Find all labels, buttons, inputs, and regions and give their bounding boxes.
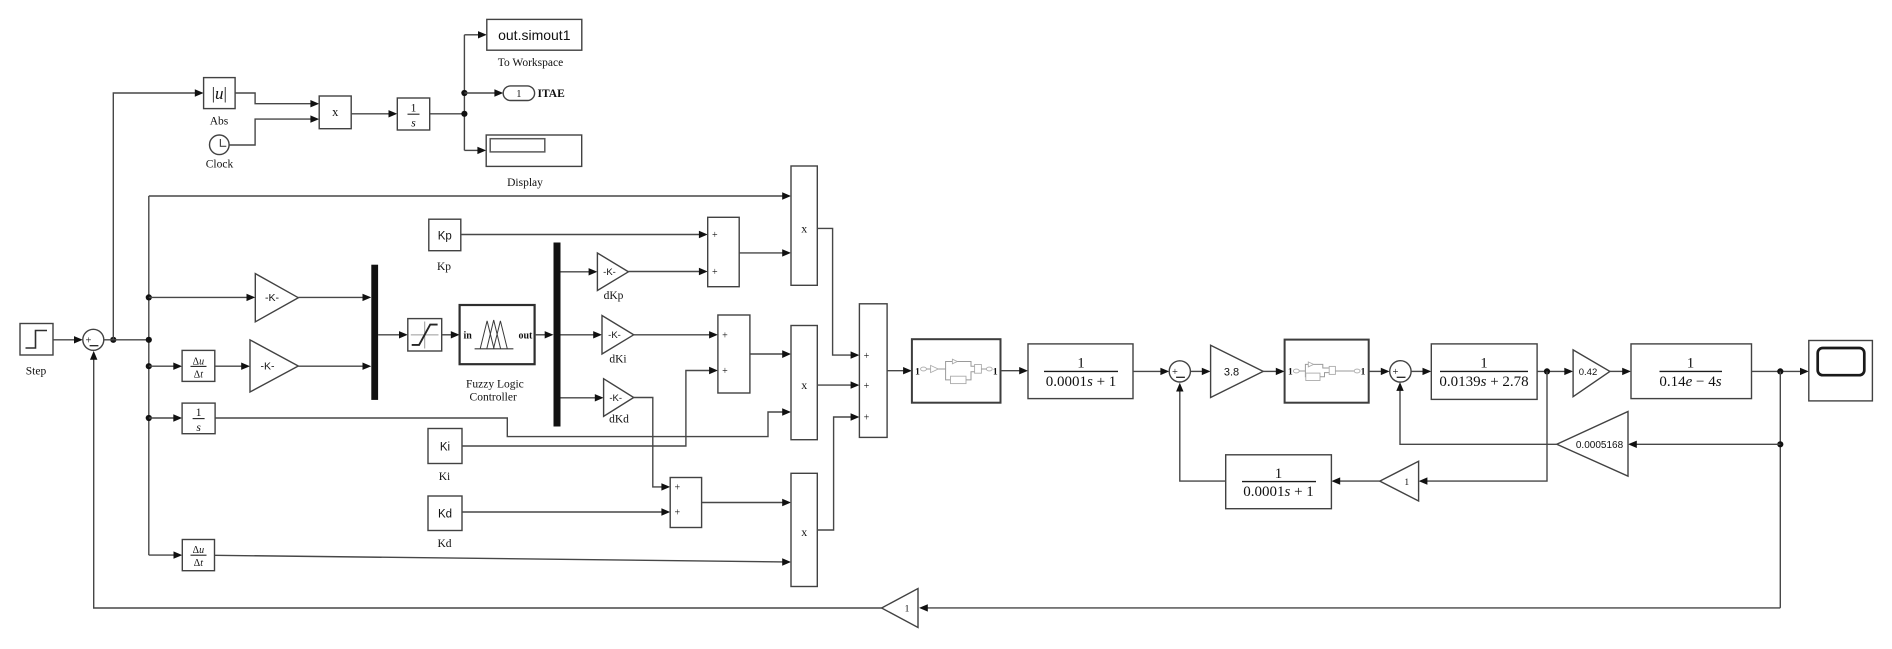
svg-text:0.0139s + 2.78: 0.0139s + 2.78: [1439, 374, 1528, 390]
block Saturation: [408, 319, 442, 351]
wire Sum5 to Gain3.8: [1190, 368, 1210, 375]
wire Kde to Mux: [298, 363, 371, 370]
block constant Kd: [428, 496, 462, 531]
wire Product to Integrator: [351, 110, 397, 117]
svg-text:Ki: Ki: [439, 471, 451, 483]
block Product x: [319, 96, 351, 129]
gain 0.42 triangle: [1573, 350, 1610, 397]
block derivative du/dt 2: [182, 540, 214, 571]
node e-bus integ tap: [146, 415, 152, 421]
svg-text:+: +: [1172, 367, 1178, 378]
svg-text:Kd: Kd: [437, 538, 451, 550]
svg-text:+: +: [1393, 367, 1399, 378]
wire e-bus vertical: [148, 196, 150, 555]
wire du/dt2 to Product3: [215, 555, 792, 565]
wire TF4 to Sum5: [1176, 383, 1226, 481]
wire Subsystem1 to TF1: [1001, 367, 1029, 374]
svg-text:-K-: -K-: [608, 330, 621, 341]
svg-text:Fuzzy Logic: Fuzzy Logic: [466, 378, 524, 390]
wire Ke to Mux: [298, 294, 371, 301]
node plant output junction: [1777, 368, 1783, 374]
product Product3: [791, 473, 817, 586]
svg-text:To Workspace: To Workspace: [498, 57, 563, 69]
wire dKd to SumD: [634, 398, 671, 491]
wire Kd to SumD: [462, 508, 670, 515]
wire Kp to SumP: [461, 231, 708, 238]
wire Demux to dKi: [561, 331, 603, 338]
wire Gain0.0005168 to Sum6: [1396, 382, 1557, 444]
block TransferFcn3 1/(0.14e-4s): [1631, 344, 1752, 399]
node ITAE tap: [461, 90, 467, 96]
wire e to du/dt2: [149, 551, 183, 558]
svg-text:1: 1: [516, 89, 521, 100]
block Scope: [1809, 341, 1873, 401]
wire Saturation to FLC: [442, 331, 460, 338]
svg-text:out.simout1: out.simout1: [498, 27, 571, 43]
svg-text:+: +: [864, 381, 870, 392]
sum SumOut: [859, 304, 887, 438]
gain Ke -K- triangle: [255, 274, 298, 322]
svg-text:Abs: Abs: [210, 115, 229, 127]
svg-text:dKi: dKi: [609, 353, 626, 365]
svg-text:Δu: Δu: [193, 356, 204, 367]
wire dKi to SumI: [634, 331, 718, 338]
wire e to gain Ke: [149, 294, 256, 301]
block derivative du/dt 1: [182, 350, 215, 381]
block To Workspace out.simout1: [487, 19, 582, 50]
svg-text:Display: Display: [507, 177, 543, 189]
wire TF2 junction down to Gain1a: [1419, 371, 1547, 484]
wire Clock to Product: [229, 115, 319, 145]
wire Ki to SumI: [462, 367, 718, 446]
svg-text:0.0001s + 1: 0.0001s + 1: [1046, 374, 1117, 390]
block Fuzzy Logic Controller: [460, 305, 535, 364]
block TransferFcn2 1/(0.0139s+2.78): [1431, 344, 1537, 400]
sum Sum5 circle: [1169, 361, 1190, 382]
svg-text:-K-: -K-: [609, 393, 622, 404]
wire to ToWorkspace: [464, 31, 486, 38]
svg-text:Controller: Controller: [470, 392, 517, 404]
wire Gain1a to TF4: [1331, 477, 1379, 484]
wire to ITAE port: [464, 89, 503, 96]
wire plant output down: [1779, 371, 1781, 608]
wire Product3 to SumOut: [817, 413, 859, 530]
wire integrator2 to Product2: [215, 408, 791, 436]
svg-text:in: in: [464, 331, 473, 342]
svg-text:x: x: [801, 378, 807, 392]
mux Mux1: [371, 265, 378, 400]
sum SumI: [718, 315, 750, 393]
sum junction Sum1: [83, 329, 104, 350]
svg-text:+: +: [722, 366, 728, 377]
svg-text:1: 1: [196, 407, 202, 419]
block constant Kp: [429, 219, 461, 251]
gain Kde -K- triangle: [250, 340, 298, 392]
product Product1: [791, 166, 817, 285]
svg-text:+: +: [85, 336, 91, 347]
sum SumD: [670, 478, 701, 528]
wire Sum6 to TF2: [1411, 368, 1431, 375]
svg-text:+: +: [712, 230, 718, 241]
wire Sum1 out to e-bus: [104, 339, 149, 341]
wire Step to Sum1: [53, 336, 83, 343]
subsystem Subsystem1: [912, 339, 1001, 403]
svg-text:x: x: [801, 525, 807, 539]
sum Sum6 circle: [1390, 361, 1411, 382]
svg-text:Step: Step: [26, 366, 47, 378]
wire tap vertical: [463, 35, 465, 151]
wire Gain3.8 to Subsystem2: [1263, 368, 1284, 375]
gain 0.0005168 triangle: [1557, 412, 1628, 477]
block integrator2 1/s: [182, 403, 215, 434]
svg-text:dKp: dKp: [604, 290, 624, 302]
block TransferFcn4 1/(0.0001s+1): [1226, 455, 1332, 509]
wire tap to Gain0.0005168: [1628, 441, 1780, 448]
block Display: [486, 135, 582, 166]
wire Abs to Product: [235, 93, 319, 107]
wire TF3 to Scope: [1752, 368, 1809, 375]
block Step: [20, 324, 53, 356]
wire outer feedback bottom: [919, 604, 1780, 611]
svg-text:-K-: -K-: [603, 267, 616, 278]
svg-text:+: +: [864, 351, 870, 362]
wire Gain0.42 to TF3: [1610, 368, 1631, 375]
svg-text:dKd: dKd: [609, 413, 629, 425]
svg-text:0.0001s + 1: 0.0001s + 1: [1243, 484, 1314, 500]
wire SumP to Product1: [739, 249, 791, 256]
svg-text:3.8: 3.8: [1224, 366, 1239, 378]
svg-text:1: 1: [1361, 368, 1366, 378]
subsystem Subsystem2: [1285, 340, 1369, 403]
svg-text:1: 1: [411, 103, 417, 115]
svg-text:Δt: Δt: [194, 369, 203, 380]
svg-text:0.0005168: 0.0005168: [1576, 440, 1624, 451]
wire Mux1 to Saturation: [378, 331, 408, 338]
wire e to Abs: [113, 89, 203, 339]
wire Subsystem2 to Sum6: [1369, 368, 1390, 375]
svg-text:out: out: [518, 331, 533, 342]
svg-text:1: 1: [1404, 478, 1409, 488]
svg-text:Clock: Clock: [206, 159, 234, 171]
label Fuzzy Logic Controller: [466, 378, 524, 403]
svg-text:1: 1: [1288, 368, 1293, 378]
wire Product1 to SumOut: [817, 228, 859, 358]
svg-text:1: 1: [915, 367, 920, 377]
svg-text:x: x: [801, 222, 807, 236]
wire TF1 to Sum5: [1133, 368, 1169, 375]
wire SumOut to Subsystem1: [887, 367, 912, 374]
svg-text:s: s: [196, 422, 201, 434]
gain 1a triangle left: [1380, 461, 1419, 501]
wire to Display: [464, 147, 486, 154]
svg-text:+: +: [722, 331, 728, 342]
svg-text:Ki: Ki: [440, 441, 450, 453]
svg-text:1: 1: [1687, 355, 1695, 371]
gain 3.8 triangle: [1211, 345, 1264, 397]
svg-text:Δt: Δt: [194, 558, 203, 569]
wire dKp to SumP: [628, 268, 707, 275]
node feedback 0.0005168 tap: [1777, 441, 1783, 447]
gain dKi triangle: [602, 316, 634, 355]
sum SumP: [708, 217, 740, 286]
node TF2 output junction: [1544, 368, 1550, 374]
node e junction A: [110, 337, 116, 343]
wire e to du/dt1: [149, 363, 182, 370]
svg-text:-K-: -K-: [265, 292, 280, 304]
node integrator out: [461, 111, 467, 117]
wire e to Product1 top: [149, 192, 791, 199]
svg-text:0.42: 0.42: [1579, 367, 1598, 378]
wire TF2 to Gain0.42: [1537, 368, 1573, 375]
svg-text:s: s: [411, 118, 416, 130]
wire Integrator to tap: [430, 113, 465, 115]
svg-text:+: +: [712, 267, 718, 278]
wire e to integrator2: [149, 414, 182, 421]
block TransferFcn1 1/(0.0001s+1): [1028, 344, 1133, 399]
svg-text:1: 1: [1077, 355, 1085, 371]
gain dKd triangle: [604, 379, 634, 417]
block constant Ki: [428, 429, 462, 464]
wire Gain1b to Sum1: [90, 351, 882, 608]
block Clock: [210, 135, 230, 155]
svg-text:|u|: |u|: [212, 84, 227, 103]
wire SumD to Product3: [702, 499, 791, 506]
block Integrator 1/s: [397, 98, 429, 130]
svg-text:Kd: Kd: [438, 509, 452, 521]
wire du/dt1 to gain Kde: [215, 363, 250, 370]
demux Demux1: [554, 243, 561, 427]
wire Product2 to SumOut: [817, 381, 859, 388]
svg-text:-K-: -K-: [261, 361, 276, 373]
gain 1b triangle left: [882, 589, 918, 628]
svg-text:x: x: [332, 105, 339, 119]
svg-text:Δu: Δu: [193, 545, 204, 556]
wire Demux to dKd: [561, 394, 604, 401]
gain dKp triangle: [597, 253, 628, 291]
product Product2: [791, 326, 817, 440]
svg-text:+: +: [674, 483, 680, 494]
svg-text:+: +: [674, 508, 680, 519]
outport ITAE 1: [503, 86, 534, 101]
svg-text:1: 1: [993, 367, 998, 377]
node e-bus deriv tap: [146, 363, 152, 369]
svg-text:1: 1: [905, 605, 910, 615]
svg-text:0.14e − 4s: 0.14e − 4s: [1659, 374, 1721, 390]
svg-text:Kp: Kp: [437, 261, 451, 273]
svg-text:ITAE: ITAE: [538, 88, 566, 100]
svg-text:Kp: Kp: [438, 230, 452, 242]
svg-text:1: 1: [1480, 355, 1488, 371]
wire FLC to Demux: [535, 331, 554, 338]
svg-text:+: +: [864, 413, 870, 424]
wire Demux to dKp: [561, 268, 598, 275]
svg-text:1: 1: [1275, 466, 1283, 482]
block Abs: [204, 78, 236, 109]
node e-bus gain1 tap: [146, 294, 152, 300]
wire SumI to Product2: [750, 350, 791, 358]
node e-bus top of sum: [146, 337, 152, 343]
